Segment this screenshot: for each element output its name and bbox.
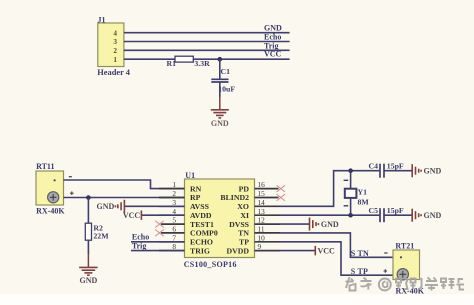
svg-text:9: 9 [258, 242, 262, 251]
pin marker + (RT21) [384, 269, 388, 273]
svg-text:RP: RP [190, 193, 201, 202]
svg-text:TP: TP [239, 238, 249, 247]
wire XI (U1 pin13 to C5) [280, 214, 379, 216]
svg-text:GND: GND [424, 211, 442, 220]
wire DVDD (U1 pin9 to VCC port) [280, 250, 315, 252]
svg-text:RT11: RT11 [36, 162, 54, 171]
wire R2 bottom [87, 240, 89, 254]
VCC power port (U1 pin4 AVDD) [123, 211, 185, 221]
svg-text:C1: C1 [221, 67, 231, 76]
svg-text:COMP0: COMP0 [190, 229, 218, 238]
svg-text:CS100_SOP16: CS100_SOP16 [184, 260, 237, 269]
U1 pin names right [220, 184, 249, 255]
bottom white strip [0, 294, 474, 305]
U1 right pin stubs 16-9 [255, 189, 281, 251]
watermark 知乎 @骆驼学编程 [346, 277, 465, 291]
svg-text:3: 3 [113, 37, 117, 46]
net label Echo [264, 33, 281, 42]
ground power port (U1 pin3 AVSS) [97, 200, 185, 213]
svg-text:Header 4: Header 4 [97, 68, 130, 77]
svg-text:1: 1 [113, 55, 117, 64]
svg-text:RT21: RT21 [395, 241, 414, 250]
svg-text:16: 16 [258, 180, 266, 189]
ground power port (U1 pin12) [310, 218, 339, 231]
IC U1 CS100_SOP16 [184, 171, 255, 269]
U1 pin numbers left [172, 180, 176, 251]
ground power port (C4) [412, 164, 441, 177]
wire VCC net (J1 pin1 left of R1) [124, 58, 175, 60]
wire Echo net (J1 pin3) [124, 41, 290, 43]
wire RT11 plus to U1 pin2 [64, 197, 185, 199]
net label S TN [351, 249, 369, 258]
J1 pin 3 [113, 37, 117, 46]
svg-text:VCC: VCC [264, 49, 282, 58]
wire VCC net (R1 to label) [193, 58, 289, 60]
svg-text:S TN: S TN [351, 249, 369, 258]
wire TN (U1 pin11 to RT21 minus) [280, 233, 393, 257]
wire C1 top [219, 59, 221, 79]
svg-text:11: 11 [258, 225, 265, 234]
transducer RT21 [393, 241, 425, 295]
svg-text:15: 15 [258, 189, 266, 198]
junction node (crystal top) [348, 168, 353, 173]
svg-text:DVSS: DVSS [229, 220, 249, 229]
svg-text:DVDD: DVDD [226, 246, 249, 255]
resistor R2 [85, 223, 109, 240]
svg-text:J1: J1 [98, 15, 106, 24]
net label Trig [132, 241, 147, 250]
svg-text:PD: PD [239, 184, 250, 193]
U1 left pin stubs 1-8 [159, 189, 185, 251]
wire RT11 minus to U1 pin1 [64, 180, 185, 189]
svg-text:TN: TN [238, 229, 249, 238]
wire TP (U1 pin10 to RT21 plus) [280, 242, 393, 275]
svg-text:13: 13 [258, 207, 266, 216]
svg-text:VCC: VCC [123, 211, 141, 220]
capacitor C1 [211, 67, 235, 93]
svg-text:TEST1: TEST1 [190, 220, 214, 229]
svg-text:TRIG: TRIG [190, 246, 210, 255]
net label VCC [264, 49, 282, 58]
J1 pin 1 [113, 55, 117, 64]
svg-text:GND: GND [211, 119, 229, 128]
svg-text:ECHO: ECHO [190, 238, 213, 247]
svg-text:GND: GND [80, 276, 98, 285]
resistor R1 [167, 56, 211, 68]
wire C1 bottom [219, 82, 221, 97]
svg-text:XI: XI [240, 211, 249, 220]
svg-text:R1: R1 [167, 59, 177, 68]
svg-text:15pF: 15pF [387, 162, 404, 171]
VCC power port (U1 pin9) [315, 246, 335, 255]
junction node (RT11 plus / R2) [86, 195, 91, 200]
pin marker - (RT11) [69, 176, 72, 178]
svg-text:Trig: Trig [132, 241, 147, 250]
wire C5 to ground port [384, 214, 412, 216]
wire XO (U1 pin14 up to crystal rail) [280, 171, 379, 207]
svg-text:U1: U1 [185, 171, 195, 180]
ground power port (C5) [412, 209, 441, 222]
svg-text:VCC: VCC [318, 246, 336, 255]
net label S TP [351, 267, 368, 276]
svg-text:4: 4 [113, 28, 117, 37]
U1 pin names left [190, 184, 218, 255]
svg-text:Y1: Y1 [358, 188, 368, 197]
svg-text:Echo: Echo [264, 33, 281, 42]
svg-text:Echo: Echo [132, 233, 149, 242]
net label Trig [264, 41, 279, 50]
wire Trig (U1 pin8) [131, 250, 185, 252]
svg-text:C4: C4 [369, 162, 379, 171]
no-connect X (U1 pin5) [155, 221, 163, 228]
crystal Y1 [344, 171, 370, 216]
svg-text:3.3R: 3.3R [194, 59, 210, 68]
J1 pin 2 [113, 46, 117, 55]
wire Trig net (J1 pin2) [124, 49, 290, 51]
ground symbol (R2) [79, 254, 97, 285]
transducer RT11 [36, 162, 65, 216]
svg-text:2: 2 [113, 46, 117, 55]
no-connect X (U1 pin6) [155, 230, 163, 237]
svg-text:GND: GND [264, 24, 282, 33]
svg-text:14: 14 [258, 198, 266, 207]
net label Echo [132, 233, 149, 242]
svg-text:10uF: 10uF [218, 84, 235, 93]
svg-text:GND: GND [97, 202, 115, 211]
svg-text:6: 6 [172, 225, 176, 234]
svg-text:22M: 22M [93, 232, 109, 241]
wire GND net (J1 pin4) [124, 32, 290, 34]
svg-text:RX-40K: RX-40K [36, 207, 65, 216]
junction node (crystal bottom) [348, 213, 353, 218]
wire Echo (U1 pin7) [131, 241, 185, 243]
svg-text:15pF: 15pF [387, 206, 404, 215]
svg-text:5: 5 [172, 216, 176, 225]
pin marker + (RT11) [70, 191, 74, 195]
wire DVSS (U1 pin12 to ground port) [280, 223, 309, 225]
svg-text:12: 12 [258, 216, 266, 225]
svg-text:AVSS: AVSS [190, 202, 209, 211]
svg-text:1: 1 [172, 180, 176, 189]
svg-text:GND: GND [321, 220, 339, 229]
capacitor C4 [369, 162, 404, 178]
svg-text:AVDD: AVDD [190, 211, 212, 220]
svg-text:10: 10 [258, 233, 266, 242]
svg-text:GND: GND [424, 167, 442, 176]
svg-text:XO: XO [237, 202, 249, 211]
no-connect X (U1 pin15) [277, 194, 285, 201]
ground symbol (C1) [211, 97, 229, 128]
svg-text:C5: C5 [369, 206, 379, 215]
U1 pin numbers right [258, 180, 266, 251]
net label GND [264, 24, 282, 33]
J1 pin 4 [113, 28, 117, 37]
svg-text:BLIND2: BLIND2 [220, 193, 249, 202]
svg-text:S TP: S TP [351, 267, 368, 276]
junction node (R1 / C1) [218, 57, 223, 62]
svg-text:RN: RN [190, 184, 202, 193]
pin marker - (RT21) [384, 252, 387, 254]
capacitor C5 [369, 206, 404, 222]
connector J1 [97, 15, 130, 77]
no-connect X (U1 pin16) [277, 185, 285, 192]
wire R2 top [87, 198, 89, 224]
wire C4 to ground port [384, 170, 412, 172]
svg-text:2: 2 [172, 189, 176, 198]
